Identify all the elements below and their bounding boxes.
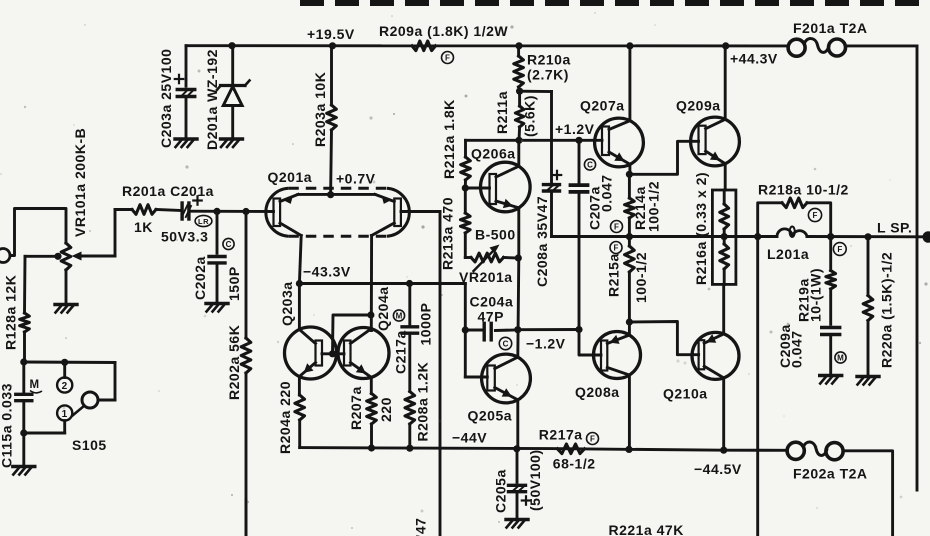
node Q207a emitter xyxy=(626,171,633,178)
wire Q203a-Q204a bases xyxy=(322,352,344,355)
circled F L201a xyxy=(833,243,846,256)
wire C201a to Q201a base xyxy=(189,210,274,213)
svg-text:R201a C201a: R201a C201a xyxy=(122,183,214,199)
transistor Q208a xyxy=(594,332,641,379)
node -43.3V junction xyxy=(296,280,303,287)
svg-text:1000P: 1000P xyxy=(417,303,433,346)
wire R210a to C208a xyxy=(520,90,552,93)
svg-text:D201a WZ-192: D201a WZ-192 xyxy=(204,49,220,150)
wire +1.2V line xyxy=(466,139,603,142)
node C217a tap xyxy=(406,280,413,287)
ground C203a xyxy=(175,137,197,140)
svg-text:Q208a: Q208a xyxy=(575,384,620,400)
svg-text:C208a 35V47: C208a 35V47 xyxy=(534,196,550,287)
transistor Q203a xyxy=(285,327,337,379)
svg-text:LR: LR xyxy=(198,217,209,226)
svg-text:+19.5V: +19.5V xyxy=(307,26,355,42)
svg-text:R208a 1.2K: R208a 1.2K xyxy=(414,362,430,442)
wire Q201a right base to feedback xyxy=(401,210,440,213)
ground C209a xyxy=(820,374,842,377)
svg-text:C203a 25V100: C203a 25V100 xyxy=(158,49,174,148)
svg-text:M: M xyxy=(30,379,40,391)
svg-text:(50V100): (50V100) xyxy=(527,449,543,511)
svg-text:F: F xyxy=(813,211,818,220)
capacitor C115a xyxy=(22,362,25,392)
svg-text:Q210a: Q210a xyxy=(663,386,708,402)
capacitor C203a xyxy=(185,46,188,86)
wire output node line xyxy=(552,235,778,238)
ground R220a xyxy=(857,375,879,378)
svg-text:L SP.: L SP. xyxy=(877,220,912,236)
resistor R203a xyxy=(330,46,333,105)
potentiometer VR201a B-500 xyxy=(465,256,471,259)
node R207a bottom xyxy=(368,444,375,451)
wire VR101a bottom xyxy=(65,270,68,304)
wire -1.2V line xyxy=(518,328,579,331)
svg-text:R209a (1.8K) 1/2W: R209a (1.8K) 1/2W xyxy=(379,23,508,39)
wire Q201a right collector xyxy=(370,236,373,331)
svg-text:220: 220 xyxy=(378,397,394,422)
node C204a right xyxy=(514,326,521,333)
capacitor C204a xyxy=(465,329,481,332)
wire +19.5V rail xyxy=(186,44,789,47)
svg-text:2: 2 xyxy=(62,381,68,392)
node Q203a/Q204a base feed xyxy=(367,311,374,318)
capacitor C202a xyxy=(216,211,219,253)
node Q210a collector bottom xyxy=(720,447,727,454)
svg-text:1K: 1K xyxy=(134,219,153,235)
wire Q201a common emitters xyxy=(298,193,375,196)
svg-text:R207a: R207a xyxy=(348,386,364,430)
svg-text:M: M xyxy=(837,353,844,362)
svg-text:F: F xyxy=(614,243,619,252)
node R202a tap xyxy=(242,208,249,215)
resistor R207a xyxy=(367,394,377,425)
svg-text:R128a 12K: R128a 12K xyxy=(2,275,18,350)
svg-text:C: C xyxy=(226,240,232,249)
fuse F201a xyxy=(788,39,805,56)
svg-text:R211a: R211a xyxy=(494,91,510,134)
node C202a tap xyxy=(213,208,220,215)
svg-text:−43.3V: −43.3V xyxy=(303,264,351,280)
switch S105 pole xyxy=(82,392,98,408)
switch S105 contact 2 xyxy=(63,362,66,377)
node R210a bottom xyxy=(516,88,523,95)
svg-text:C: C xyxy=(503,339,509,348)
wire wiper to R201a xyxy=(115,208,132,211)
svg-text:68-1/2: 68-1/2 xyxy=(553,456,596,472)
resistor R220a xyxy=(867,237,870,296)
svg-text:C115a 0.033: C115a 0.033 xyxy=(0,383,14,468)
wire output to R221a xyxy=(756,237,759,536)
node R203a to emitters xyxy=(327,191,334,198)
circled C C207a xyxy=(584,159,595,170)
capacitor C208a xyxy=(544,183,560,186)
ground C115a xyxy=(13,465,35,468)
circled F R218a xyxy=(808,208,821,221)
resistor R215a xyxy=(628,237,631,246)
svg-text:C217a: C217a xyxy=(392,330,408,374)
resistor R210a xyxy=(517,46,520,56)
svg-text:B-500: B-500 xyxy=(475,227,516,243)
resistor R219a xyxy=(829,237,832,271)
svg-text:R217a: R217a xyxy=(539,427,583,443)
svg-text:0.047: 0.047 xyxy=(598,174,614,212)
ground D201a xyxy=(221,137,243,140)
node R128a bottom xyxy=(20,358,27,365)
node L201a left xyxy=(754,233,761,240)
ground VR101a xyxy=(55,303,77,306)
circled M C209a xyxy=(835,352,846,363)
node C207a bottom xyxy=(575,326,582,333)
wire -43.3V node line xyxy=(299,282,465,285)
svg-text:100-1/2: 100-1/2 xyxy=(633,252,649,303)
transistor Q201a right half xyxy=(394,199,401,227)
svg-text:R215a: R215a xyxy=(605,253,621,297)
node R216a mid xyxy=(721,233,728,240)
svg-text:150P: 150P xyxy=(226,266,242,301)
resistor R216a box xyxy=(712,190,736,284)
capacitor C205a xyxy=(516,449,519,483)
wire Q207a emitter to Q209a base xyxy=(629,141,698,174)
svg-text:R218a 10-1/2: R218a 10-1/2 xyxy=(758,182,849,198)
circled C C202a xyxy=(223,238,234,249)
node R214a bottom xyxy=(626,233,633,240)
svg-text:F: F xyxy=(445,53,450,62)
ground C202a xyxy=(206,302,228,305)
resistor R218a xyxy=(758,203,782,237)
node S105 contact2 tap xyxy=(61,359,68,366)
node R208a bottom xyxy=(406,445,413,452)
svg-text:1: 1 xyxy=(62,409,68,420)
top border dashed line xyxy=(300,0,930,6)
svg-text:S105: S105 xyxy=(72,437,107,453)
resistor R204a xyxy=(295,395,305,420)
svg-text:L201a: L201a xyxy=(767,246,809,262)
node Q206a collector top xyxy=(515,137,522,144)
wire S105 top xyxy=(24,361,115,364)
transistor Q207a xyxy=(595,118,644,167)
svg-text:R210a: R210a xyxy=(527,52,571,68)
wire to Q205a base xyxy=(464,330,467,377)
input terminal xyxy=(0,249,10,263)
svg-text:Q204a: Q204a xyxy=(375,286,391,331)
node C204a left xyxy=(462,326,469,333)
svg-text:+0.7V: +0.7V xyxy=(336,171,376,187)
svg-text:F201a T2A: F201a T2A xyxy=(793,20,868,36)
transistor Q210a xyxy=(692,332,739,379)
svg-text:47P: 47P xyxy=(478,309,504,325)
svg-text:R203a 10K: R203a 10K xyxy=(312,72,328,147)
node Q205a emitter bottom xyxy=(513,445,520,452)
svg-text:Q209a: Q209a xyxy=(676,98,721,114)
svg-text:(5.6K): (5.6K) xyxy=(521,95,537,137)
svg-text:VR101a 200K-B: VR101a 200K-B xyxy=(72,128,88,237)
svg-text:−1.2V: −1.2V xyxy=(526,336,566,352)
svg-text:10-(1W): 10-(1W) xyxy=(807,268,823,322)
transistor Q209a xyxy=(691,117,740,166)
resistor R201a xyxy=(132,205,156,215)
resistor R212a xyxy=(464,140,467,157)
capacitor C209a xyxy=(822,326,840,329)
svg-text:0.047: 0.047 xyxy=(788,330,804,368)
svg-text:C205a: C205a xyxy=(492,469,508,513)
resistor R208a xyxy=(408,333,411,391)
transistor Q206a xyxy=(481,162,531,212)
resistor R214a xyxy=(628,174,631,198)
circled C C204a xyxy=(499,337,511,349)
wire to Q206a base xyxy=(465,187,489,190)
svg-text:50V3.3: 50V3.3 xyxy=(161,229,208,245)
svg-text:Q205a: Q205a xyxy=(468,408,513,424)
circled M C217a xyxy=(393,310,404,321)
decor xyxy=(594,12,596,14)
svg-text:VR201a: VR201a xyxy=(459,269,513,285)
fuse F202a xyxy=(787,442,804,459)
svg-text:F: F xyxy=(614,222,619,231)
svg-text:+44.3V: +44.3V xyxy=(730,51,778,67)
svg-text:+1.2V: +1.2V xyxy=(555,121,595,137)
svg-text:Q206a: Q206a xyxy=(471,146,516,162)
diode D201a WZ-192 xyxy=(231,46,234,86)
svg-text:R204a 220: R204a 220 xyxy=(277,381,293,454)
transistor Q204a xyxy=(338,328,389,379)
node R220a top xyxy=(864,233,871,240)
svg-text:F202a T2A: F202a T2A xyxy=(793,466,868,482)
circled F R215a xyxy=(610,242,622,254)
transistor Q201a outline xyxy=(266,188,288,236)
wire input to VR101a top xyxy=(10,209,66,256)
transistor Q201a left half xyxy=(274,199,281,227)
switch S105 contact 1 xyxy=(57,405,72,420)
svg-text:F: F xyxy=(590,434,595,443)
node Q206a base tap xyxy=(462,184,469,191)
node R215a bottom xyxy=(626,318,633,325)
circled LR C201a xyxy=(195,215,212,226)
wire Q201a left collector xyxy=(299,236,301,284)
svg-text:R221a 47K: R221a 47K xyxy=(609,522,684,536)
wire wiper to R128a xyxy=(25,255,58,258)
resistor R209a xyxy=(412,41,436,51)
wire to Q210a base xyxy=(629,322,698,355)
wire feedback line xyxy=(439,212,442,536)
node Q208a collector bottom xyxy=(625,446,632,453)
svg-text:Q203a: Q203a xyxy=(279,281,295,326)
svg-text:R220a (1.5K)-1/2: R220a (1.5K)-1/2 xyxy=(878,252,894,368)
wiper VR101a xyxy=(80,255,115,258)
capacitor C207a xyxy=(578,140,581,182)
svg-text:R216a (0.33 x 2): R216a (0.33 x 2) xyxy=(693,172,709,285)
svg-text:F: F xyxy=(837,245,842,254)
wire F202a to bottom right xyxy=(844,451,893,536)
svg-text:−44.5V: −44.5V xyxy=(694,461,742,477)
wire R201a to C201a xyxy=(156,210,182,211)
svg-text:Q207a: Q207a xyxy=(580,98,625,114)
circled F R214a xyxy=(611,221,623,233)
svg-text:R213a 470: R213a 470 xyxy=(439,197,455,270)
resistor R202a xyxy=(245,212,248,339)
potentiometer VR101a xyxy=(61,243,71,270)
resistor R211a xyxy=(518,91,521,106)
ground C205a xyxy=(506,518,528,521)
inductor L201a xyxy=(777,229,792,237)
node bases dot xyxy=(329,350,336,357)
wire base feed L xyxy=(333,315,371,354)
transistor Q205a xyxy=(482,354,531,403)
capacitor C201a xyxy=(180,203,183,219)
svg-text:C204a: C204a xyxy=(470,294,514,310)
resistor R217a xyxy=(557,444,584,454)
node +19.5V junction dots xyxy=(228,42,235,49)
node C115a / S1 junction xyxy=(20,429,27,436)
resistor R128a xyxy=(20,313,30,332)
node L201a right xyxy=(827,233,834,240)
circled F R217a xyxy=(587,433,599,445)
svg-text:C202a: C202a xyxy=(192,256,208,300)
circled F R209a xyxy=(442,52,454,64)
capacitor C217a xyxy=(408,284,411,327)
resistor R213a xyxy=(464,188,467,213)
wire R202a continues xyxy=(245,500,248,536)
svg-text:−44V: −44V xyxy=(452,430,487,446)
node VR201a right xyxy=(515,254,522,261)
node VR101a wiper dot xyxy=(54,253,61,260)
svg-text:Q201a: Q201a xyxy=(268,169,313,185)
svg-text:100-1/2: 100-1/2 xyxy=(645,181,661,232)
node C207a top xyxy=(575,137,582,144)
terminal L SP xyxy=(923,231,930,243)
svg-text:M: M xyxy=(396,311,403,320)
wire right supply rail xyxy=(916,46,919,490)
svg-text:C: C xyxy=(587,160,593,169)
svg-text:R212a 1.8K: R212a 1.8K xyxy=(441,99,457,179)
svg-text:R202a 56K: R202a 56K xyxy=(226,325,242,400)
svg-text:'47: '47 xyxy=(412,518,428,536)
wire Q206a emitter / Q205a collector xyxy=(518,258,519,357)
svg-text:(2.7K): (2.7K) xyxy=(527,67,569,83)
wire -44V rail xyxy=(300,448,788,451)
